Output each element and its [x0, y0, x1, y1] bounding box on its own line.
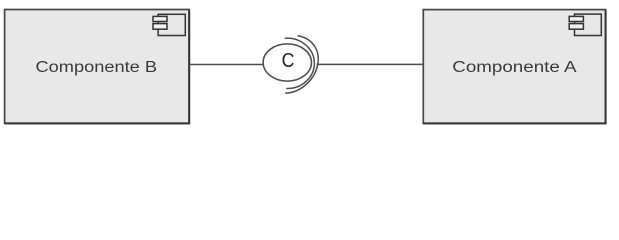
svg-text:C: C: [282, 50, 295, 72]
svg-text:Componente A: Componente A: [452, 59, 577, 76]
svg-text:Componente B: Componente B: [36, 59, 158, 76]
